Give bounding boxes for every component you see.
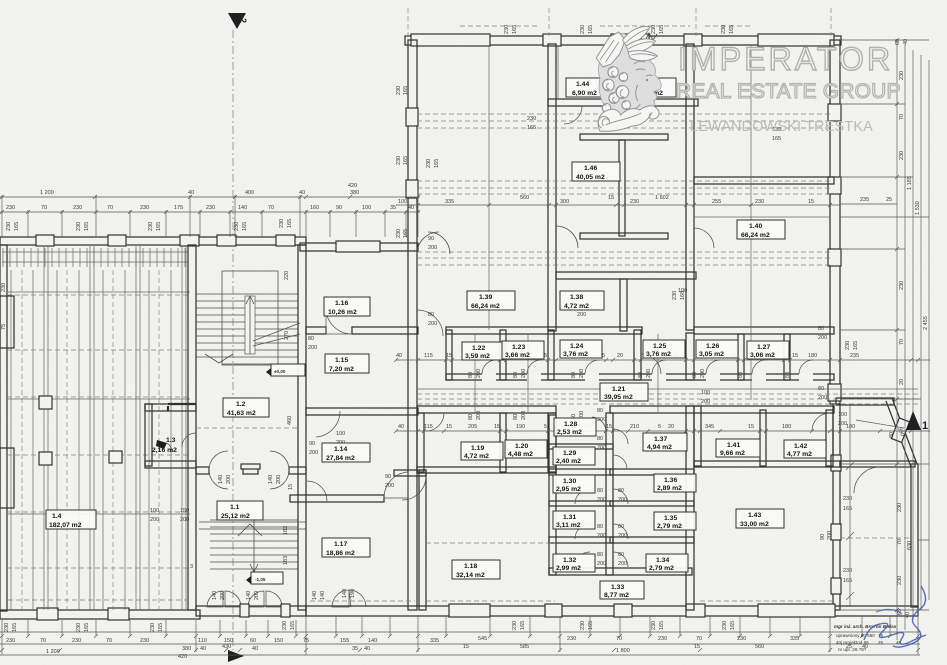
room label 1.46 xyxy=(572,162,620,181)
wall 1.38 right stub xyxy=(620,279,627,331)
watermark REAL ESTATE GROUP xyxy=(676,80,901,103)
room label 1.14 xyxy=(322,443,370,462)
left wing left edge wall xyxy=(0,245,7,611)
level marker -1,05 xyxy=(246,572,283,584)
architect text block xyxy=(834,624,902,652)
door arc 1.3 to stairwell xyxy=(182,433,196,447)
stairwell left wall xyxy=(188,245,196,610)
main block left wall xyxy=(406,40,418,610)
interior dim row y360 xyxy=(394,358,930,362)
room label 1.37 xyxy=(643,433,687,451)
room label 1.25 xyxy=(643,340,685,358)
room label 1.28 xyxy=(554,418,596,436)
watermark LEWANDOWSKI TRESTKA xyxy=(690,119,873,135)
rooms 1.19/1.20 walls xyxy=(417,413,556,473)
room label 1.16 xyxy=(324,297,370,316)
door size labels 1.1 xyxy=(218,475,294,490)
room label 1.42 xyxy=(784,440,826,458)
wall 1.2/1.1 divider with door stubs xyxy=(196,464,306,474)
door arc 1.17 xyxy=(384,472,408,498)
room label 1.29 xyxy=(553,447,595,465)
left wing grid verticals xyxy=(11,246,186,610)
left edge door bump A xyxy=(0,296,14,348)
room label 1.23 xyxy=(502,341,544,359)
left wing top wall xyxy=(0,235,306,246)
interior dim row y205 xyxy=(396,203,897,217)
room 1.18 left wall xyxy=(394,470,426,610)
watermark IMPERATOR xyxy=(678,41,893,77)
wall y178 top right xyxy=(694,177,834,184)
left edge dims xyxy=(1,283,345,463)
left wing glazing hatch band xyxy=(2,248,188,267)
room label 1.35 xyxy=(654,512,696,530)
column 1.28-1.32 walls xyxy=(549,413,692,575)
left wing horizontal dashed lines xyxy=(7,292,190,568)
main block right wall upper xyxy=(828,40,841,404)
left wing bottom wall xyxy=(0,608,200,620)
main block right wall lower xyxy=(831,404,841,610)
row A bottom wall y374 with door gaps xyxy=(446,373,834,381)
interior dim row y431 xyxy=(394,429,930,433)
left edge door bump B xyxy=(0,448,14,508)
section marker 2 bottom xyxy=(228,650,244,662)
bump door arc xyxy=(854,467,880,493)
wall 1.39/1.44 vertical x549 xyxy=(548,44,556,331)
room label 1.45 xyxy=(632,78,676,97)
bump-out top wall xyxy=(836,398,894,405)
door arcs corridor area xyxy=(426,354,830,431)
wall bottom of 1.46 y273 xyxy=(556,272,696,279)
top band rotated window dims xyxy=(6,219,293,231)
row A top wall y328 xyxy=(446,327,834,334)
wall 1.14/1.17 xyxy=(290,495,384,502)
room 1.3 walls xyxy=(145,404,196,468)
section marker 2 top xyxy=(228,13,248,29)
room label 1.33 xyxy=(600,581,644,599)
room label 1.22 xyxy=(462,342,504,360)
row A door arcs xyxy=(482,360,813,374)
bump interior dashed xyxy=(840,537,911,539)
column C3 xyxy=(109,451,122,463)
room label 1.39 xyxy=(467,291,515,310)
room label 1.26 xyxy=(696,340,738,358)
WATERMARK xyxy=(596,27,901,135)
column C1 xyxy=(39,396,52,409)
room label 1.32 xyxy=(553,554,595,572)
room label 1.30 xyxy=(553,475,595,493)
top band above left wing: dim lines xyxy=(0,190,420,237)
wall x688 major vertical xyxy=(686,44,694,610)
room label 1.38 xyxy=(560,291,604,310)
axis thin lines xyxy=(475,45,751,412)
door arcs 1.44 1.45 to corridor xyxy=(564,106,650,124)
rooms column interior: wall 1.16/1.15 xyxy=(306,327,418,334)
stair flight down xyxy=(210,515,298,572)
door dim pairs misc xyxy=(308,236,833,540)
room label 1.2 xyxy=(223,398,269,417)
rotated window dims above main block xyxy=(504,25,909,45)
rooms 1.41/1.42 walls xyxy=(694,406,840,467)
door arcs 1.46 top xyxy=(428,226,714,254)
window dims left of main block wall xyxy=(396,86,409,238)
wall top of 1.43 right portion xyxy=(840,461,915,467)
section marker 1 xyxy=(856,411,928,432)
room label 1.1 xyxy=(217,501,263,520)
room label 1.15 xyxy=(325,354,369,373)
room label 1.41 xyxy=(716,439,760,457)
corridor dashed bands upper xyxy=(417,114,918,404)
T column upper in 1.46 xyxy=(580,134,668,236)
stairwell right wall xyxy=(298,245,306,610)
top band numbers row2 xyxy=(6,205,414,211)
room label 1.34 xyxy=(646,554,688,572)
bottom rotated window dims xyxy=(4,621,736,632)
landing lines + chevron xyxy=(199,522,306,536)
wall below 1.44/1.45 xyxy=(548,99,698,106)
room label 1.18 xyxy=(452,560,500,579)
door arcs 1.1 entry xyxy=(209,451,289,489)
door arcs left wall 1.39 xyxy=(402,232,443,500)
row A dividers xyxy=(446,330,790,380)
signature blue xyxy=(864,586,926,647)
row A divider 1.23/1.24 xyxy=(548,330,554,380)
room label 1.3 xyxy=(152,437,177,454)
column C2 xyxy=(39,452,52,465)
room 1.18 top dashed xyxy=(426,542,556,544)
bump-out right wall xyxy=(911,464,918,607)
room label 1.31 xyxy=(553,511,595,529)
small door arcs center columns xyxy=(575,417,628,567)
main bottom wall xyxy=(306,604,918,617)
section line 2 (vertical dashed) xyxy=(232,30,234,650)
column 1.37-1.34 walls xyxy=(610,469,694,543)
dashed lines above bottom wall xyxy=(8,600,832,601)
room label 1.27 xyxy=(747,341,789,359)
room label 1.44 xyxy=(566,78,610,97)
bottom band numbers xyxy=(6,636,799,644)
room label 1.4 xyxy=(46,510,96,529)
top band numbers row1 xyxy=(40,183,359,196)
door arc 1.15 xyxy=(326,308,352,334)
wall 1.44/1.45 vertical xyxy=(625,44,633,103)
door dim pairs rotated row A xyxy=(468,369,791,420)
stairwell mid dashed xyxy=(196,427,298,429)
entrance door arcs xyxy=(207,591,282,607)
window dim pairs inside plan xyxy=(426,116,859,584)
main block top wall xyxy=(405,34,841,46)
level marker +-0,00 xyxy=(266,364,305,376)
right dimension band lines xyxy=(840,38,929,640)
room 1.3 fixture xyxy=(156,440,171,452)
stairwell bottom entrance wall xyxy=(196,606,306,616)
corridor bottom wall y406 xyxy=(417,406,834,413)
room label 1.21 xyxy=(600,383,648,401)
room label 1.19 xyxy=(461,442,503,460)
room label 1.40 xyxy=(737,220,785,239)
break symbol on top wall xyxy=(635,33,657,46)
room label 1.36 xyxy=(654,474,696,492)
bottom band dim lines xyxy=(0,610,920,655)
wall 1.15/1.14 xyxy=(306,408,418,415)
door dim pairs center columns xyxy=(597,408,627,567)
right band rotated numbers xyxy=(889,71,929,618)
room label 1.17 xyxy=(322,538,370,557)
watermark head of emperor xyxy=(596,27,661,132)
door dims bottom entrance xyxy=(212,589,356,600)
top band above main block xyxy=(408,8,831,36)
room label 1.24 xyxy=(560,340,602,358)
stair dims xyxy=(283,271,293,565)
room label 1.20 xyxy=(505,440,547,458)
door arc rooms column at x306 xyxy=(307,481,327,501)
T column lower in 1.46 xyxy=(580,233,668,239)
right strip vertical dim line xyxy=(846,404,854,607)
door arc 1.14 xyxy=(316,411,340,437)
dims near 1.3 xyxy=(150,508,193,570)
room label 1.43 xyxy=(736,509,784,528)
bump-out diagonal wall xyxy=(886,398,917,467)
rooms column top wall xyxy=(300,241,418,252)
stair flight up xyxy=(196,271,300,365)
